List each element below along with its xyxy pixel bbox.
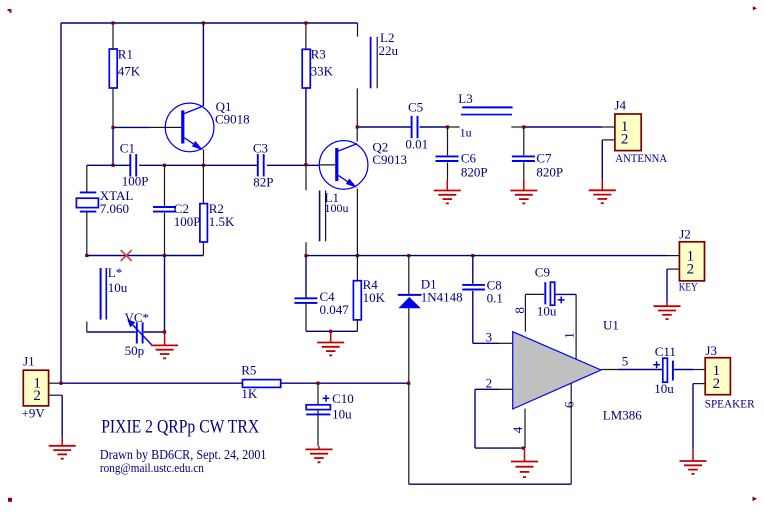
svg-text:5: 5 xyxy=(622,354,629,369)
svg-text:ANTENNA: ANTENNA xyxy=(615,152,668,165)
svg-text:820P: 820P xyxy=(536,164,563,179)
svg-text:8: 8 xyxy=(512,307,527,314)
svg-text:1.5K: 1.5K xyxy=(209,214,235,229)
svg-text:0.047: 0.047 xyxy=(320,302,350,317)
svg-text:C11: C11 xyxy=(655,344,676,359)
svg-text:1N4148: 1N4148 xyxy=(421,290,463,305)
svg-text:3: 3 xyxy=(486,329,493,344)
svg-text:PIXIE 2 QRPp CW TRX: PIXIE 2 QRPp CW TRX xyxy=(101,417,260,437)
svg-text:10u: 10u xyxy=(108,280,128,295)
svg-text:1: 1 xyxy=(562,332,577,339)
svg-text:7.060: 7.060 xyxy=(100,201,129,216)
svg-text:2: 2 xyxy=(486,375,493,390)
svg-text:100P: 100P xyxy=(122,174,149,189)
svg-text:KEY: KEY xyxy=(679,282,698,294)
svg-text:2: 2 xyxy=(687,262,695,278)
svg-text:J3: J3 xyxy=(705,343,717,358)
svg-text:50p: 50p xyxy=(125,343,145,358)
svg-text:U1: U1 xyxy=(603,317,619,332)
svg-text:R3: R3 xyxy=(311,47,326,62)
svg-text:6: 6 xyxy=(561,401,576,408)
svg-text:100P: 100P xyxy=(174,214,201,229)
svg-text:82P: 82P xyxy=(253,175,273,190)
svg-text:C9018: C9018 xyxy=(215,111,250,126)
svg-text:VC*: VC* xyxy=(125,310,150,325)
svg-text:820P: 820P xyxy=(461,164,488,179)
svg-text:33K: 33K xyxy=(311,64,334,79)
svg-text:2: 2 xyxy=(33,388,41,404)
svg-text:J2: J2 xyxy=(679,227,691,242)
svg-text:C9013: C9013 xyxy=(372,152,407,167)
svg-text:rong@mail.ustc.edu.cn: rong@mail.ustc.edu.cn xyxy=(100,460,204,475)
svg-text:100u: 100u xyxy=(325,201,349,215)
svg-text:C10: C10 xyxy=(332,391,354,406)
svg-text:1K: 1K xyxy=(241,386,258,401)
svg-text:47K: 47K xyxy=(118,64,141,79)
svg-text:4: 4 xyxy=(510,426,525,433)
svg-text:10u: 10u xyxy=(537,303,557,318)
svg-text:22u: 22u xyxy=(379,43,399,58)
svg-text:C3: C3 xyxy=(253,140,268,155)
svg-text:SPEAKER: SPEAKER xyxy=(705,397,755,410)
svg-text:0.1: 0.1 xyxy=(487,291,503,306)
svg-text:J1: J1 xyxy=(23,353,35,368)
svg-text:10u: 10u xyxy=(332,407,352,422)
svg-text:2: 2 xyxy=(621,132,629,148)
svg-text:R1: R1 xyxy=(118,47,133,62)
svg-text:10u: 10u xyxy=(654,381,674,396)
svg-text:LM386: LM386 xyxy=(603,408,643,423)
svg-text:C1: C1 xyxy=(120,140,135,155)
svg-text:+9V: +9V xyxy=(22,406,46,421)
svg-text:C9: C9 xyxy=(535,265,550,280)
svg-text:1u: 1u xyxy=(460,125,472,139)
svg-text:C5: C5 xyxy=(408,100,423,115)
svg-text:0.01: 0.01 xyxy=(405,137,428,152)
svg-text:L*: L* xyxy=(108,265,122,280)
svg-text:L3: L3 xyxy=(458,91,472,106)
svg-text:R5: R5 xyxy=(241,363,256,378)
svg-text:10K: 10K xyxy=(363,290,386,305)
svg-text:2: 2 xyxy=(713,376,721,392)
svg-text:J4: J4 xyxy=(614,97,626,112)
